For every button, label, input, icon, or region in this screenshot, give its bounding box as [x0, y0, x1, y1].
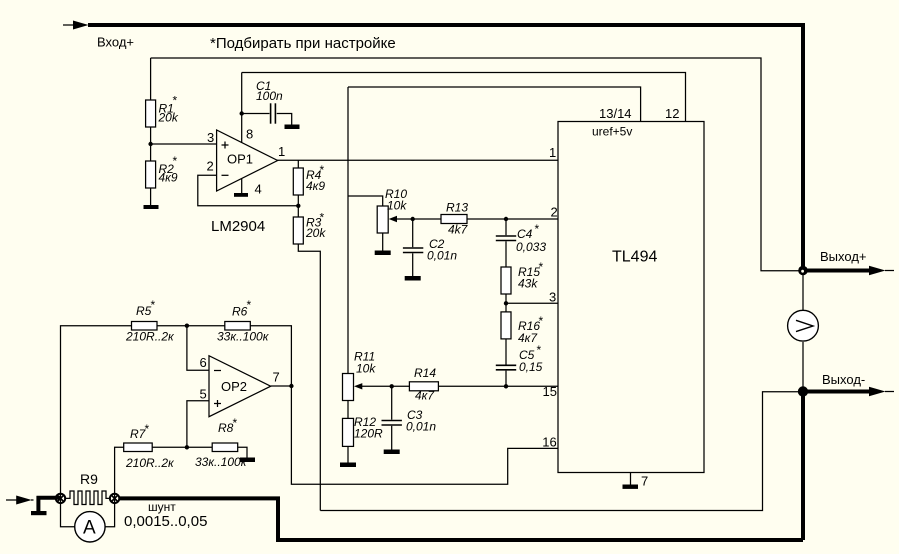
svg-text:20k: 20k — [305, 226, 326, 240]
node C2 tap — [411, 217, 415, 221]
wire OP1 pin8 to TL494 pin12 — [242, 73, 686, 122]
svg-text:Вход+: Вход+ — [97, 35, 134, 50]
wire C2 top lead — [412, 219, 414, 247]
wire OP1 pin 8 supply stub — [241, 73, 243, 144]
wire OP1 output to TL494 pin 1 — [277, 159, 558, 161]
resistor R2 — [146, 154, 178, 188]
pin 7 label OP2 — [273, 370, 280, 385]
svg-text:4к9: 4к9 — [306, 179, 325, 193]
svg-text:0,01n: 0,01n — [406, 420, 436, 434]
svg-text:*: * — [144, 422, 149, 436]
wire C1 left lead — [242, 113, 270, 115]
wire C3 bottom lead — [391, 426, 393, 450]
label Выход+ — [820, 249, 867, 264]
pin 15 label TL494 — [543, 384, 557, 399]
wire thick input- ground stub — [36, 496, 40, 511]
wire R1-R2 link — [150, 127, 152, 161]
svg-text:15: 15 — [543, 384, 557, 399]
resistor R7 — [124, 422, 175, 470]
wire C1 right lead — [277, 114, 292, 125]
resistor R15 — [501, 260, 543, 294]
svg-text:210R..2к: 210R..2к — [125, 456, 175, 470]
wire input+ lead — [63, 24, 74, 26]
wire OP2 pin 6 — [187, 326, 209, 371]
ground C1 — [285, 125, 300, 130]
svg-text:6: 6 — [200, 355, 207, 370]
svg-text:0,033: 0,033 — [516, 240, 546, 254]
wire R2 bottom lead — [150, 188, 152, 205]
pin 7 label TL494 — [641, 474, 648, 489]
pin 13/14 label TL494 — [599, 106, 632, 121]
resistor R3 — [293, 211, 326, 245]
voltmeter V — [788, 310, 819, 341]
ground R2 — [144, 205, 159, 209]
svg-text:*: * — [534, 222, 539, 236]
node C1 tap — [240, 111, 244, 115]
svg-text:4к9: 4к9 — [159, 170, 178, 184]
svg-text:C4: C4 — [517, 227, 533, 241]
IC U1 TL494 — [558, 122, 704, 473]
svg-text:0,15: 0,15 — [519, 360, 543, 374]
svg-text:7: 7 — [641, 474, 648, 489]
svg-text:20k: 20k — [158, 111, 179, 125]
note *Подбирать при настройке — [210, 35, 396, 52]
pin 8 label OP1 — [246, 127, 253, 142]
wire ammeter left — [61, 503, 75, 527]
wire R13 to TL494 pin 2 — [467, 218, 558, 220]
svg-text:1: 1 — [549, 145, 556, 160]
node pin 3 — [504, 301, 508, 305]
wire R11 to R12 — [347, 401, 349, 419]
svg-text:Выход+: Выход+ — [820, 249, 867, 264]
svg-text:2: 2 — [207, 159, 214, 174]
node C4 tap — [504, 217, 508, 221]
ground input- — [31, 511, 47, 515]
wire R15 bottom to pin 3 — [505, 294, 507, 312]
capacitor C2 — [403, 237, 457, 263]
pin 3 label OP1 — [207, 130, 214, 145]
svg-text:R9: R9 — [80, 471, 98, 487]
svg-text:*: * — [538, 260, 543, 274]
svg-text:12: 12 — [665, 106, 679, 121]
wire voltmeter bottom — [802, 342, 804, 388]
wire C4 to R15 — [505, 241, 507, 267]
wire voltmeter top — [802, 274, 804, 310]
pin 16 label TL494 — [542, 434, 556, 449]
label шунт — [148, 500, 176, 514]
svg-text:LM2904: LM2904 — [211, 218, 265, 235]
svg-text:R14: R14 — [414, 366, 436, 380]
wire R4 top lead — [297, 160, 299, 168]
wire input- lead — [6, 499, 17, 501]
svg-text:2: 2 — [551, 205, 558, 220]
svg-text:100n: 100n — [256, 89, 283, 103]
node R1/R2 divider — [148, 142, 152, 146]
wire R7 feed from shunt right terminal — [115, 447, 124, 503]
capacitor C3 — [382, 408, 437, 434]
wire R16 to C5 — [505, 339, 507, 365]
wire OP1 pin 4 stub — [241, 179, 243, 194]
svg-text:33к..100к: 33к..100к — [217, 330, 270, 344]
wire TL494 pin 7 stub — [630, 472, 632, 485]
svg-text:7: 7 — [273, 370, 280, 385]
svg-text:*: * — [150, 298, 155, 312]
wire R14 to pin15 node — [438, 385, 506, 387]
svg-text:3: 3 — [207, 130, 214, 145]
ground R12 — [340, 463, 356, 468]
wire R4 bottom lead — [297, 195, 299, 217]
shunt R9 element — [65, 471, 110, 505]
wire R10 top link — [348, 196, 383, 206]
wire R7 to node — [152, 446, 212, 448]
wire OP2 output — [271, 385, 292, 387]
node pin 15 — [504, 384, 508, 388]
capacitor C5 — [496, 343, 543, 374]
pin 12 label TL494 — [665, 106, 679, 121]
node Выход- — [798, 386, 808, 396]
svg-text:*: * — [172, 154, 177, 168]
wire to OP1 pin 3 — [151, 143, 217, 145]
svg-text:OP1: OP1 — [227, 152, 253, 167]
wire thick Выход- down to bottom bus — [801, 392, 805, 541]
svg-text:uref+5v: uref+5v — [592, 125, 632, 139]
resistor R13 — [441, 201, 469, 237]
node Выход+ — [798, 266, 808, 276]
wire R11 wiper to R14 — [359, 385, 409, 387]
wire R3 bottom to Выход- sense — [298, 244, 320, 511]
wire C2 bottom lead — [412, 253, 414, 276]
svg-text:1: 1 — [278, 144, 285, 159]
ground C2 — [405, 276, 421, 281]
wire thick Вход+ to Выход+ bus — [88, 25, 803, 271]
svg-text:13/14: 13/14 — [599, 106, 632, 121]
pin 4 label OP1 — [255, 182, 262, 197]
svg-text:TL494: TL494 — [612, 249, 657, 266]
svg-text:R13: R13 — [446, 201, 468, 215]
svg-text:8: 8 — [246, 127, 253, 142]
svg-text:43k: 43k — [518, 277, 538, 291]
wire thick shunt to bottom bus — [119, 498, 803, 540]
ground R8 — [240, 458, 255, 463]
svg-text:*: * — [319, 163, 324, 177]
svg-text:3: 3 — [549, 289, 556, 304]
resistor R8 — [195, 416, 248, 469]
wire uref vertical down — [347, 87, 349, 374]
node R5/R6 — [185, 324, 189, 328]
node C3 tap — [390, 384, 394, 388]
wire R10 bottom lead — [382, 233, 384, 251]
resistor R5 — [125, 298, 175, 344]
ground R10 — [375, 251, 391, 256]
capacitor C1 — [256, 79, 283, 124]
wire R5 feed from shunt left terminal — [61, 326, 132, 504]
svg-text:*: * — [536, 343, 541, 357]
resistor R4 — [293, 163, 325, 195]
label LM2904 — [211, 218, 265, 235]
node R7/R8 — [185, 445, 189, 449]
svg-text:*: * — [232, 416, 237, 430]
wire OP2 pin 5 — [187, 401, 209, 448]
pin 1 label OP1 output — [278, 144, 285, 159]
svg-text:*: * — [246, 298, 251, 312]
wire pin 3 — [506, 302, 558, 304]
svg-text:*Подбирать при настройке: *Подбирать при настройке — [210, 35, 396, 52]
resistor R12 — [343, 415, 384, 446]
op-amp OP1 — [217, 130, 278, 191]
svg-text:210R..2к: 210R..2к — [125, 330, 175, 344]
pin 2 label OP1 — [207, 159, 214, 174]
label shunt value — [124, 513, 207, 530]
svg-text:33к..100к: 33к..100к — [195, 455, 248, 469]
svg-text:*: * — [538, 314, 543, 328]
resistor R14 — [409, 366, 438, 403]
ground OP1 pin 4 — [234, 193, 248, 197]
terminal left shunt connector — [56, 494, 65, 503]
wire C5 bottom to pin 15 — [505, 371, 507, 387]
svg-text:OP2: OP2 — [221, 379, 247, 394]
svg-text:5: 5 — [200, 387, 207, 402]
wire thick input- to shunt — [37, 496, 61, 500]
resistor R16 — [501, 312, 543, 345]
wire output+ voltage sense (R1 top to Выход+ node) — [151, 58, 800, 271]
svg-text:Выход-: Выход- — [822, 372, 865, 387]
svg-text:4k7: 4k7 — [448, 223, 469, 237]
wire R6 right to OP2 output — [250, 326, 291, 386]
wire OP2 output to pin 16 — [291, 386, 558, 484]
svg-text:120R: 120R — [354, 427, 383, 441]
resistor R1 — [146, 94, 179, 128]
input- arrow — [16, 496, 33, 505]
svg-text:4: 4 — [255, 182, 262, 197]
svg-text:10k: 10k — [356, 362, 376, 376]
wire OP1 pin 2 feedback — [198, 175, 298, 206]
pin 6 label OP2 — [200, 355, 207, 370]
svg-text:*: * — [319, 211, 324, 225]
svg-text:16: 16 — [542, 434, 556, 449]
svg-text:*: * — [172, 94, 177, 108]
node OP2 output — [289, 384, 293, 388]
wire C4 top lead — [505, 219, 507, 235]
wire uref feed vertical (pin13/14 to R10/R11) — [348, 87, 641, 122]
wire pin 15 — [506, 385, 558, 387]
label Выход- — [822, 372, 865, 387]
pin 3 label TL494 — [549, 289, 556, 304]
resistor R6 — [217, 298, 270, 344]
svg-text:шунт: шунт — [148, 500, 176, 514]
Выход- arrow — [869, 387, 894, 396]
svg-text:10k: 10k — [387, 199, 407, 213]
wire R5 to node — [157, 325, 225, 327]
wire thick Выход+ arrow line — [806, 269, 870, 273]
svg-text:0,0015..0,05: 0,0015..0,05 — [124, 513, 207, 530]
wire Выход- sense line — [320, 392, 800, 511]
wire ammeter right — [105, 503, 115, 527]
input+ arrow — [73, 21, 89, 30]
ammeter A — [75, 512, 105, 542]
capacitor C4 — [496, 222, 547, 254]
ground C3 — [384, 450, 400, 455]
wire R1 top lead — [150, 58, 152, 100]
svg-text:4к7: 4к7 — [415, 389, 435, 403]
wire R8 right lead — [238, 447, 247, 457]
pin 5 label OP2 — [200, 387, 207, 402]
label Вход+ — [97, 35, 134, 50]
wire R10 wiper to pin2 line — [394, 218, 441, 220]
svg-text:0,01n: 0,01n — [427, 249, 457, 263]
svg-text:A: A — [83, 518, 96, 539]
wire C3 top lead — [391, 386, 393, 419]
ground TL494 pin 7 — [623, 485, 639, 489]
terminal right shunt connector — [110, 494, 119, 503]
Выход+ arrow — [869, 266, 894, 275]
potentiometer R11 — [343, 350, 377, 401]
pin 2 label TL494 — [551, 205, 558, 220]
op-amp OP2 — [209, 356, 271, 417]
wire thick Выход- arrow line — [803, 390, 870, 394]
node R4/R3 — [296, 204, 300, 208]
potentiometer R10 — [377, 187, 407, 233]
pin 1 label TL494 — [549, 145, 556, 160]
wire R12 bottom lead — [347, 446, 349, 462]
